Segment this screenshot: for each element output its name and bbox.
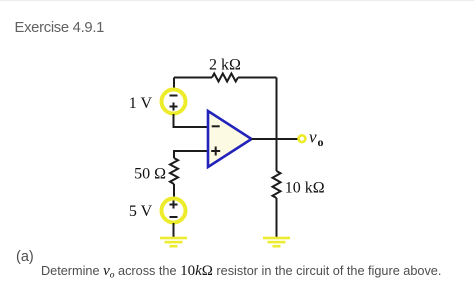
wire: from 10 kOhm bottom to ground: [276, 198, 278, 237]
wire: left vertical from + input corner down to 50 Ohm: [173, 150, 175, 158]
svg-text:2 kΩ: 2 kΩ: [209, 57, 241, 74]
resistor R_f 2 kOhm zigzag: [212, 74, 238, 82]
resistor R1 50 Ohm zigzag vertical: [170, 158, 178, 184]
op-amp minus input symbol: [212, 125, 220, 127]
svg-text:5 V: 5 V: [129, 203, 153, 220]
wire: right vertical feedback/output branch: [276, 78, 278, 172]
resistor R2 10 kOhm zigzag vertical: [273, 171, 281, 198]
svg-text:v: v: [309, 128, 317, 147]
op-amp plus input symbol: [211, 147, 220, 156]
op-amp U1 triangle: [208, 111, 252, 167]
wire: feedback top horizontal left segment: [174, 77, 212, 79]
wire: from 5V bottom to ground: [173, 223, 175, 237]
wire: left vertical from feedback to 1V source: [173, 78, 175, 90]
V1 plus sign: [170, 103, 178, 111]
node vo terminal: [299, 135, 306, 142]
wire: op-amp noninverting input horizontal: [174, 150, 208, 152]
V1 minus sign: [170, 95, 178, 97]
wire: from 1V bottom down and right to op-amp inverting input: [174, 114, 209, 127]
ground under 10 kOhm: [263, 237, 290, 248]
svg-text:10 kΩ: 10 kΩ: [285, 179, 325, 196]
voltage source V1 1V circle: [162, 90, 186, 114]
V2 plus sign: [170, 201, 178, 209]
wire: op-amp output: [252, 138, 299, 140]
voltage source V2 5V circle: [162, 199, 186, 223]
svg-text:1 V: 1 V: [129, 95, 153, 112]
ground under 5V source: [160, 237, 187, 248]
svg-text:o: o: [318, 135, 324, 149]
wire: from 50 Ohm bottom to 5V source top: [173, 184, 175, 197]
wire: feedback top horizontal right segment: [238, 77, 277, 79]
V2 minus sign: [170, 216, 178, 218]
svg-text:50 Ω: 50 Ω: [134, 166, 166, 183]
